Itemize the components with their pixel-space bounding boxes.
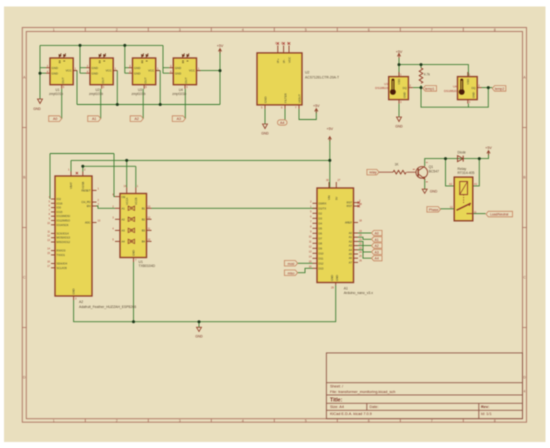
svg-text:D10: D10 — [319, 251, 324, 255]
svg-text:ACS712ELCTR-20A-T: ACS712ELCTR-20A-T — [305, 75, 339, 79]
svg-text:B4: B4 — [142, 239, 146, 243]
svg-text:relay: relay — [369, 171, 377, 175]
svg-text:4: 4 — [524, 390, 526, 394]
svg-text:VBAT: VBAT — [69, 182, 73, 189]
svg-text:Arduino_nano_v3.x: Arduino_nano_v3.x — [344, 291, 374, 295]
svg-text:3: 3 — [179, 28, 181, 32]
svg-text:GND: GND — [430, 190, 438, 194]
svg-text:4: 4 — [242, 419, 244, 423]
svg-text:5: 5 — [305, 419, 307, 423]
svg-text:8: 8 — [494, 28, 496, 32]
svg-text:D4: D4 — [319, 221, 323, 225]
svg-text:IO15: IO15 — [57, 210, 63, 214]
svg-text:File: transformer_monitoring.k: File: transformer_monitoring.kicad_sch — [330, 390, 395, 394]
svg-text:A1: A1 — [375, 238, 379, 242]
svg-text:A4: A4 — [349, 248, 353, 252]
svg-text:D11: D11 — [319, 256, 324, 260]
svg-text:D13: D13 — [319, 266, 324, 270]
svg-text:B2: B2 — [142, 217, 146, 221]
svg-text:A7: A7 — [349, 260, 353, 264]
svg-text:RX/IO3: RX/IO3 — [57, 249, 66, 253]
svg-text:A1: A1 — [92, 117, 96, 121]
svg-text:SCK/IO14: SCK/IO14 — [57, 231, 70, 235]
svg-text:D9: D9 — [319, 246, 323, 250]
svg-text:A2: A2 — [134, 117, 138, 121]
svg-text:IO14/SCK: IO14/SCK — [57, 223, 69, 227]
svg-text:7: 7 — [431, 419, 433, 423]
svg-text:D8: D8 — [319, 241, 323, 245]
svg-text:D5: D5 — [319, 226, 323, 230]
svg-text:Size: A4: Size: A4 — [330, 405, 344, 409]
svg-text:GND: GND — [132, 250, 136, 256]
svg-text:A2: A2 — [375, 244, 379, 248]
svg-text:+5V: +5V — [485, 146, 492, 150]
svg-text:GND: GND — [335, 275, 339, 281]
svg-text:BC547: BC547 — [429, 169, 439, 173]
svg-text:A2: A2 — [349, 239, 353, 243]
svg-text:TX/IO1: TX/IO1 — [57, 253, 66, 257]
svg-text:ADC: ADC — [85, 221, 91, 225]
svg-text:DS18B20: DS18B20 — [375, 86, 388, 90]
svg-text:Adafruit_Feather_HUZZAH_ESP826: Adafruit_Feather_HUZZAH_ESP8266 — [79, 305, 136, 309]
svg-text:IO16: IO16 — [57, 201, 63, 205]
svg-text:miso: miso — [288, 271, 295, 275]
svg-text:7: 7 — [431, 28, 433, 32]
svg-text:A0: A0 — [375, 232, 379, 236]
svg-text:IO13/MOSI: IO13/MOSI — [57, 214, 71, 218]
svg-text:Phase: Phase — [429, 208, 439, 212]
svg-text:3: 3 — [179, 419, 181, 423]
svg-text:VCC: VCC — [288, 57, 292, 63]
svg-text:6: 6 — [368, 28, 370, 32]
svg-text:VCCA: VCCA — [125, 197, 129, 205]
svg-text:FILTER: FILTER — [284, 93, 288, 103]
svg-text:A2: A2 — [79, 300, 83, 304]
svg-text:CH_PD: CH_PD — [81, 200, 90, 204]
svg-text:GND: GND — [330, 275, 334, 281]
svg-text:AREF: AREF — [345, 221, 353, 225]
svg-text:C: C — [23, 276, 26, 280]
svg-text:IO12/MISO: IO12/MISO — [57, 219, 70, 223]
svg-text:D: D — [23, 376, 26, 380]
svg-text:A2: A2 — [122, 217, 126, 221]
svg-text:A4: A4 — [280, 121, 284, 125]
svg-text:D12: D12 — [319, 261, 324, 265]
svg-text:A5: A5 — [349, 252, 353, 256]
svg-text:temp1: temp1 — [425, 87, 435, 91]
svg-text:zmpt101b: zmpt101b — [49, 92, 63, 96]
svg-text:TXB0104D: TXB0104D — [139, 264, 156, 268]
svg-text:GND: GND — [261, 132, 269, 136]
svg-text:6: 6 — [368, 419, 370, 423]
svg-text:SCL/IO5: SCL/IO5 — [57, 266, 68, 270]
svg-text:5V: 5V — [334, 197, 338, 200]
svg-text:B3: B3 — [142, 228, 146, 232]
svg-text:GND: GND — [72, 288, 76, 294]
svg-text:GND: GND — [264, 97, 268, 103]
svg-text:A1: A1 — [474, 182, 478, 186]
svg-text:4.7k: 4.7k — [424, 73, 430, 77]
svg-text:D: D — [523, 376, 526, 380]
svg-text:VCCB: VCCB — [134, 197, 138, 205]
svg-text:DS18B20: DS18B20 — [444, 89, 457, 93]
svg-text:A3: A3 — [349, 244, 353, 248]
svg-text:B1: B1 — [142, 206, 146, 210]
svg-text:MISO/IO12: MISO/IO12 — [57, 240, 71, 244]
svg-text:2: 2 — [116, 28, 118, 32]
svg-text:+5V: +5V — [217, 44, 224, 48]
svg-text:A0: A0 — [349, 231, 353, 235]
svg-text:zmpt101b: zmpt101b — [132, 92, 146, 96]
svg-text:IP-: IP- — [282, 59, 286, 63]
svg-text:GND: GND — [33, 107, 41, 111]
svg-text:+5V: +5V — [327, 127, 334, 131]
svg-text:mosi: mosi — [288, 262, 295, 266]
svg-text:A1: A1 — [122, 206, 126, 210]
svg-text:+5V: +5V — [396, 50, 403, 54]
svg-text:EN: EN — [87, 204, 91, 208]
svg-text:Rev:: Rev: — [481, 405, 489, 409]
svg-text:+5V: +5V — [313, 104, 320, 108]
svg-text:A2: A2 — [449, 182, 453, 186]
svg-text:A0: A0 — [53, 117, 57, 121]
svg-text:GND: GND — [395, 125, 403, 129]
svg-text:Diode: Diode — [458, 150, 467, 154]
svg-text:A4: A4 — [122, 239, 126, 243]
svg-text:2: 2 — [116, 419, 118, 423]
svg-text:8: 8 — [494, 419, 496, 423]
svg-text:IP+: IP+ — [276, 58, 280, 63]
svg-text:KiCad E.D.A. kicad 7.0.9: KiCad E.D.A. kicad 7.0.9 — [330, 412, 372, 416]
svg-text:RST: RST — [347, 204, 353, 208]
svg-text:D0/RX: D0/RX — [319, 201, 327, 205]
svg-text:temp2: temp2 — [495, 87, 505, 91]
svg-text:D6: D6 — [319, 231, 323, 235]
svg-text:IO2: IO2 — [57, 197, 62, 201]
svg-text:A1: A1 — [344, 287, 348, 291]
svg-text:Id: 1/1: Id: 1/1 — [481, 412, 492, 416]
svg-text:1: 1 — [53, 28, 55, 32]
svg-text:D7: D7 — [319, 236, 323, 240]
svg-text:MOSI/IO13: MOSI/IO13 — [57, 236, 71, 240]
svg-text:Sheet: /: Sheet: / — [330, 385, 344, 389]
svg-text:VIOUT: VIOUT — [298, 94, 302, 103]
svg-text:A6: A6 — [349, 256, 353, 260]
svg-text:SDA/IO4: SDA/IO4 — [57, 262, 68, 266]
svg-text:Date:: Date: — [370, 405, 379, 409]
svg-text:D1/TX: D1/TX — [319, 206, 327, 210]
svg-text:A3: A3 — [375, 250, 379, 254]
svg-text:4: 4 — [242, 28, 244, 32]
svg-text:zmpt101b: zmpt101b — [89, 92, 103, 96]
svg-text:A3: A3 — [177, 117, 181, 121]
svg-text:VUSB: VUSB — [81, 181, 85, 189]
svg-text:Title:: Title: — [330, 397, 343, 403]
svg-text:Load/Neutral: Load/Neutral — [490, 213, 509, 217]
svg-text:GND: GND — [195, 335, 203, 339]
svg-text:RST: RST — [347, 201, 353, 205]
svg-text:A4: A4 — [375, 257, 379, 261]
svg-text:IO0: IO0 — [57, 206, 62, 210]
svg-text:D2: D2 — [319, 211, 323, 215]
svg-text:A1: A1 — [349, 235, 353, 239]
svg-text:U2: U2 — [305, 71, 309, 75]
svg-text:5: 5 — [305, 28, 307, 32]
svg-text:RT314-405: RT314-405 — [458, 171, 475, 175]
svg-text:VIN: VIN — [327, 195, 331, 200]
svg-text:C: C — [523, 276, 526, 280]
svg-text:zmpt101b: zmpt101b — [172, 92, 186, 96]
svg-text:A3: A3 — [122, 228, 126, 232]
svg-text:D3: D3 — [319, 216, 323, 220]
svg-text:1: 1 — [53, 419, 55, 423]
